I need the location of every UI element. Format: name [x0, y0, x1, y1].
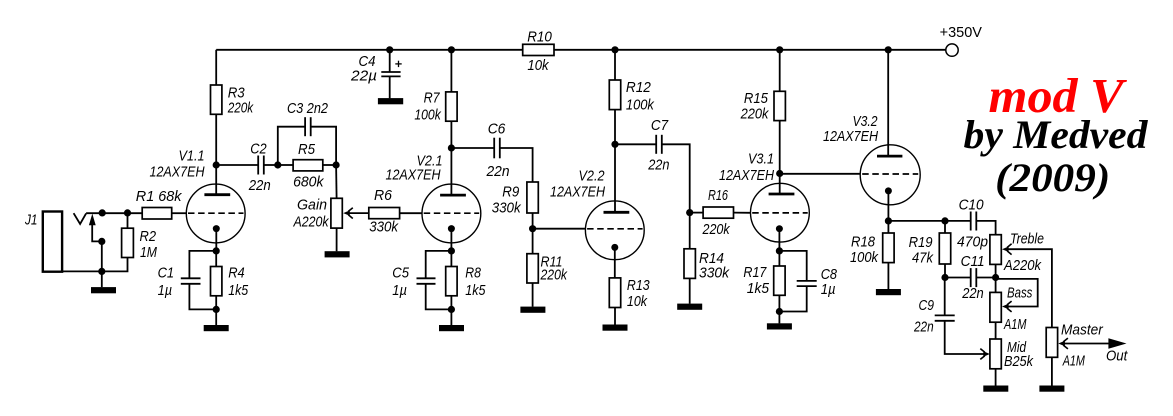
- ground Gain pot: [325, 251, 350, 257]
- capacitor C9: [913, 278, 990, 360]
- svg-text:10k: 10k: [527, 57, 550, 74]
- capacitor C7: [615, 117, 690, 213]
- svg-text:R4: R4: [228, 265, 245, 282]
- ground V2.1 cathode: [439, 325, 464, 331]
- node switch junction: [98, 238, 105, 245]
- node V1.1 plate node: [213, 161, 220, 168]
- svg-text:C10: C10: [959, 197, 985, 214]
- resistor R3: [211, 50, 255, 165]
- svg-text:220k: 220k: [702, 221, 731, 238]
- svg-text:A220k: A220k: [293, 214, 330, 231]
- wire HT rail left section: [216, 49, 523, 51]
- capacitor C8: [779, 251, 837, 312]
- svg-text:(2009): (2009): [995, 155, 1110, 200]
- ground V1.1 cathode: [204, 325, 229, 331]
- resistor R18: [850, 221, 894, 289]
- svg-text:1µ: 1µ: [821, 281, 836, 298]
- op-amp V3.1 triode: [719, 151, 809, 251]
- svg-text:C1: C1: [158, 265, 175, 282]
- capacitor C11: [945, 253, 996, 302]
- svg-text:100k: 100k: [850, 249, 879, 266]
- node Treble bottom junction: [992, 274, 999, 281]
- potentiometer Bass A1M: [990, 278, 1038, 334]
- svg-text:1µ: 1µ: [158, 282, 173, 299]
- ground V3.1 cathode: [767, 323, 792, 329]
- svg-text:J1: J1: [24, 212, 37, 229]
- potentiometer Treble A220k: [990, 231, 1052, 328]
- svg-text:A1M: A1M: [1062, 353, 1085, 370]
- op-amp V2.1 triode: [386, 148, 481, 251]
- wire V3.1 plate to V3.2 grid: [780, 173, 860, 175]
- svg-text:R18: R18: [851, 234, 876, 251]
- resistor R8: [446, 251, 486, 325]
- capacitor C5: [392, 251, 451, 310]
- svg-text:V1.1: V1.1: [179, 148, 205, 165]
- node R19-C11 junction: [941, 274, 948, 281]
- svg-text:C2: C2: [250, 141, 267, 158]
- svg-text:R13: R13: [627, 277, 650, 294]
- node Out arrow: [1106, 338, 1128, 364]
- wire switch to sleeve: [101, 241, 103, 271]
- capacitor C10: [945, 197, 996, 251]
- svg-text:10k: 10k: [627, 293, 648, 310]
- svg-text:22n: 22n: [961, 285, 983, 302]
- node V2.1 cathode bottom junction: [448, 306, 455, 313]
- svg-text:Treble: Treble: [1010, 231, 1044, 248]
- svg-text:R16: R16: [708, 187, 728, 204]
- svg-text:12AX7EH: 12AX7EH: [150, 164, 205, 181]
- svg-text:22µ: 22µ: [350, 68, 377, 85]
- ground C4: [378, 98, 403, 104]
- node rail junction V3.2 plate: [885, 46, 892, 53]
- resistor R9: [492, 182, 539, 229]
- svg-text:R10: R10: [527, 29, 552, 46]
- svg-text:12AX7EH: 12AX7EH: [386, 167, 441, 184]
- svg-text:R9: R9: [502, 184, 520, 201]
- node rail junction R12: [611, 46, 618, 53]
- svg-text:1µ: 1µ: [392, 282, 407, 299]
- svg-text:47k: 47k: [912, 250, 934, 267]
- svg-text:V2.2: V2.2: [579, 167, 606, 184]
- svg-text:A220k: A220k: [1003, 257, 1042, 274]
- svg-text:330k: 330k: [369, 219, 399, 236]
- wire jack sleeve bottom: [62, 258, 127, 272]
- node R9-R11 junction: [529, 225, 536, 232]
- svg-text:12AX7EH: 12AX7EH: [550, 184, 605, 201]
- resistor R14: [684, 213, 730, 304]
- svg-text:C7: C7: [651, 117, 669, 134]
- resistor R5: [281, 141, 336, 191]
- svg-text:R19: R19: [909, 234, 934, 251]
- resistor R7: [414, 50, 457, 148]
- node V2.1 cathode junction: [448, 247, 455, 254]
- svg-text:220k: 220k: [540, 267, 569, 284]
- capacitor C3: [278, 100, 336, 165]
- wire cathode to tone stack: [888, 220, 945, 222]
- svg-text:220k: 220k: [227, 100, 254, 117]
- resistor R16: [690, 187, 751, 238]
- resistor R15: [740, 50, 786, 174]
- svg-text:Out: Out: [1106, 348, 1128, 365]
- svg-text:22n: 22n: [486, 163, 510, 180]
- svg-text:R5: R5: [298, 141, 316, 158]
- node rail junction R15: [776, 46, 783, 53]
- svg-text:220k: 220k: [740, 106, 770, 123]
- potentiometer Mid B25k: [990, 322, 1034, 385]
- capacitor C1: [158, 251, 217, 310]
- svg-text:Bass: Bass: [1007, 285, 1033, 302]
- svg-text:22n: 22n: [913, 319, 933, 336]
- node V3.1 plate node: [776, 170, 783, 177]
- wire junction to V2.2 grid: [533, 228, 586, 230]
- svg-text:1k5: 1k5: [747, 280, 770, 297]
- svg-text:C6: C6: [488, 120, 506, 137]
- svg-text:Gain: Gain: [297, 197, 327, 214]
- svg-text:330k: 330k: [492, 200, 522, 217]
- svg-text:470p: 470p: [957, 234, 988, 251]
- svg-text:R15: R15: [744, 90, 769, 107]
- capacitor C4: [350, 50, 402, 99]
- svg-text:C9: C9: [919, 297, 935, 314]
- svg-text:C11: C11: [961, 253, 985, 270]
- svg-text:C5: C5: [392, 265, 409, 282]
- svg-text:330k: 330k: [699, 265, 730, 282]
- connector J1 input jack: [24, 212, 62, 272]
- svg-text:1k5: 1k5: [228, 282, 249, 299]
- resistor R1: [136, 188, 187, 219]
- svg-text:100k: 100k: [626, 97, 655, 114]
- svg-text:R17: R17: [743, 264, 767, 281]
- svg-text:22n: 22n: [248, 177, 271, 194]
- resistor R6: [349, 187, 422, 236]
- svg-text:22n: 22n: [647, 157, 669, 174]
- resistor R11: [527, 229, 568, 307]
- node V2.2 plate node: [611, 141, 618, 148]
- wire HT rail right section: [554, 49, 946, 51]
- wire grid feed: [86, 212, 142, 214]
- node rail junction R7: [448, 46, 455, 53]
- svg-text:R12: R12: [626, 79, 652, 96]
- resistor R10: [523, 29, 554, 75]
- svg-text:by Medved: by Medved: [964, 112, 1149, 157]
- wire jack switch arrow: [89, 214, 102, 242]
- node V3.1 cathode junction: [776, 247, 783, 254]
- resistor R17: [743, 251, 785, 324]
- svg-text:1k5: 1k5: [465, 282, 486, 299]
- node C7-R16-R14 junction: [686, 209, 693, 216]
- svg-text:R1 68k: R1 68k: [136, 188, 183, 205]
- svg-text:+350V: +350V: [940, 24, 982, 41]
- svg-text:V3.1: V3.1: [748, 151, 774, 168]
- svg-text:680k: 680k: [293, 174, 325, 191]
- capacitor C6: [451, 120, 532, 182]
- node rail junction C4: [386, 46, 393, 53]
- ground Master pot: [1039, 386, 1064, 392]
- svg-text:100k: 100k: [414, 107, 442, 124]
- svg-text:R6: R6: [374, 187, 393, 204]
- ground R13: [603, 325, 628, 331]
- node +350V terminal: [940, 24, 982, 56]
- svg-text:1M: 1M: [140, 244, 157, 261]
- potentiometer Gain A220k: [293, 165, 353, 251]
- svg-text:R2: R2: [140, 228, 157, 245]
- capacitor C2: [216, 141, 278, 195]
- node V3.2 cathode junction: [885, 217, 892, 224]
- node V1.1 cathode bottom junction: [213, 306, 220, 313]
- ground R18: [876, 289, 901, 295]
- svg-text:12AX7EH: 12AX7EH: [823, 128, 878, 145]
- node R2 top junction: [124, 209, 131, 216]
- ground input jack: [91, 271, 116, 293]
- svg-text:A1M: A1M: [1003, 316, 1026, 333]
- resistor R13: [609, 277, 650, 325]
- ground R11: [520, 307, 545, 313]
- resistor R12: [609, 50, 655, 145]
- ground R14: [677, 304, 702, 310]
- node C2-R5 junction: [274, 161, 281, 168]
- node V1.1 cathode junction: [213, 247, 220, 254]
- resistor R2: [122, 213, 158, 261]
- svg-text:R8: R8: [465, 265, 481, 282]
- node V3.1 cathode bottom junction: [776, 308, 783, 315]
- node R19-C10 junction: [941, 217, 948, 224]
- svg-text:R7: R7: [424, 89, 441, 106]
- wire jack tip contact: [74, 213, 87, 224]
- ground Mid pot: [983, 386, 1008, 392]
- node jack tip junction: [99, 209, 106, 216]
- op-amp V3.2 triode cathode follower: [823, 50, 920, 221]
- resistor R4: [211, 251, 249, 325]
- potentiometer Master A1M: [1046, 322, 1108, 386]
- node V2.1 plate node: [448, 144, 455, 151]
- svg-text:Master: Master: [1061, 322, 1104, 339]
- svg-text:B25k: B25k: [1004, 353, 1034, 370]
- resistor R19: [909, 221, 951, 278]
- svg-text:C3 2n2: C3 2n2: [287, 100, 329, 117]
- node sleeve ground junction: [98, 268, 105, 275]
- op-amp V2.2 triode: [550, 144, 644, 278]
- node R5-Gain junction: [333, 161, 340, 168]
- op-amp V1.1 triode: [150, 148, 246, 251]
- svg-text:12AX7EH: 12AX7EH: [719, 167, 774, 184]
